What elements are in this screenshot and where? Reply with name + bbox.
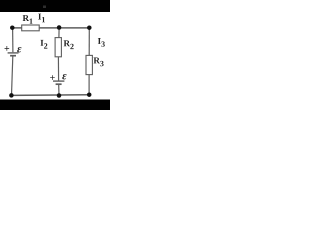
label: + polarity of battery E1 [5, 46, 10, 51]
wire: middle branch, battery E2 down to node E [58, 85, 60, 96]
label I2 (current in middle branch) [41, 40, 48, 49]
label: emf epsilon of battery E2 [62, 74, 66, 79]
wire: right branch, node C down to R3 [88, 28, 90, 56]
battery E1 long plate (+) [8, 52, 19, 54]
label R1 [23, 15, 33, 24]
top black letterbox bar [0, 0, 110, 12]
resistor R2 box [55, 38, 61, 57]
bottom black letterbox bar [0, 100, 110, 111]
battery E2 short plate (-) [56, 83, 62, 85]
resistor R3 box [86, 55, 92, 74]
battery E1 short plate (-) [10, 55, 16, 57]
node B junction dot (top middle) [57, 25, 62, 30]
node D junction dot (bottom left) [9, 93, 14, 98]
label I3 (current in right branch) [98, 38, 105, 47]
wire: left branch, node A down to battery [12, 28, 14, 53]
label R3 [94, 58, 104, 67]
wire: bottom horizontal bus from node D to node F [11, 94, 89, 97]
wire: left branch, battery down to node D [12, 56, 13, 95]
resistor R1 box on top bus [22, 25, 40, 31]
wire: right branch, R3 down to node F [88, 75, 90, 95]
wire: middle branch, node B down to R2 [58, 28, 60, 38]
node C junction dot (top right) [87, 25, 92, 30]
label I1 (current in top branch) [38, 14, 45, 23]
speck in top bar [43, 6, 46, 9]
label R2 [64, 40, 74, 49]
label: + polarity of battery E2 [50, 75, 55, 80]
node F junction dot (bottom right) [87, 92, 92, 97]
battery E2 long plate (+) [53, 80, 64, 82]
wire: middle branch, R2 down to battery E2 [57, 57, 59, 81]
node E junction dot (bottom middle) [57, 93, 62, 98]
node A junction dot (top left) [10, 25, 15, 30]
wire: top horizontal bus from node A to node C [12, 27, 89, 29]
label: emf epsilon of battery E1 [17, 47, 21, 52]
background [0, 0, 110, 110]
